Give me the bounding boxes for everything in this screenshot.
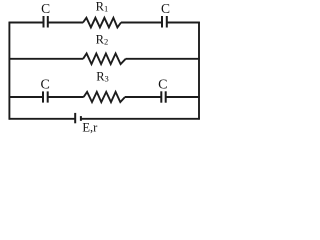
capacitor C (top-left) plates	[43, 16, 45, 28]
svg-text:R2: R2	[96, 33, 109, 47]
capacitor C (top-right) plates	[161, 16, 163, 28]
resistor R3 zigzag	[84, 92, 125, 102]
resistor R1 zigzag	[83, 18, 121, 28]
wire: row3 right segment	[166, 96, 200, 98]
svg-text:E,r: E,r	[82, 121, 98, 135]
wire: row1 right segment	[167, 22, 200, 24]
wire: row3 between R3 and right C	[125, 96, 161, 98]
wire: row2 left segment	[9, 58, 84, 60]
svg-text:R3: R3	[96, 69, 109, 83]
wire: row1 between C and R1	[48, 22, 83, 24]
wire: left vertical bus	[8, 22, 10, 120]
wire: right vertical bus	[198, 22, 200, 120]
wire: row4 right segment	[81, 118, 200, 120]
wire: row2 right segment	[126, 58, 200, 60]
svg-text:C: C	[161, 1, 170, 16]
wire: row1 between R1 and right C	[121, 22, 162, 24]
wire: row1 left segment	[9, 22, 43, 24]
svg-text:C: C	[41, 1, 50, 16]
svg-text:C: C	[158, 78, 167, 93]
resistor R2 zigzag	[83, 54, 126, 65]
svg-text:C: C	[41, 78, 50, 93]
battery E,r long plate	[74, 113, 76, 123]
wire: row3 between C and R3	[48, 96, 84, 98]
capacitor C (row3-right) plates	[160, 91, 162, 102]
battery E,r short plate	[80, 116, 82, 121]
capacitor C (row3-left) plates	[42, 91, 44, 102]
wire: row4 left segment	[9, 118, 76, 120]
svg-text:R1: R1	[96, 0, 109, 13]
wire: row3 left segment	[9, 96, 43, 98]
